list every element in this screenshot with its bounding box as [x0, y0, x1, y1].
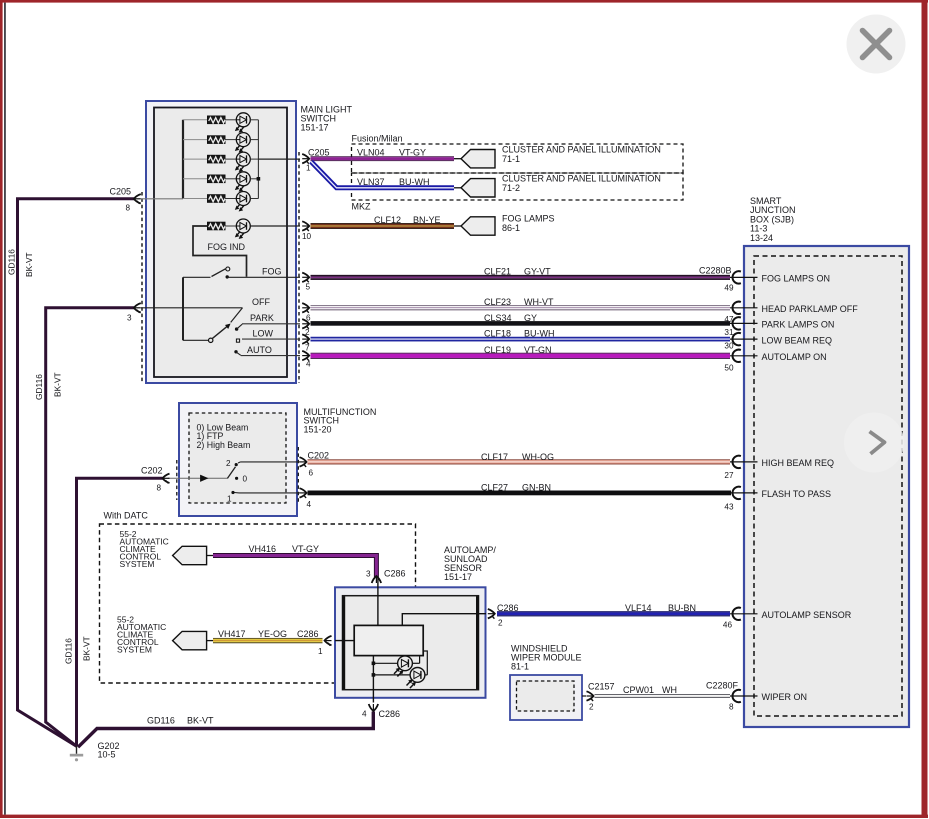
svg-text:VT-GN: VT-GN: [524, 345, 552, 355]
svg-text:GD116: GD116: [7, 249, 17, 275]
label VH417: [218, 629, 246, 639]
label pin 3: [127, 314, 132, 323]
svg-text:CLF23: CLF23: [484, 297, 511, 307]
junction dot row 4: [257, 177, 261, 181]
wire VH417 YE-OG: [213, 638, 323, 643]
label BU-WH (CLF18): [524, 328, 555, 338]
svg-text:C202: C202: [141, 466, 163, 476]
label BN-YE (CLF12): [413, 215, 441, 225]
connector C2280 pin 47 hook: [733, 302, 741, 314]
svg-text:71-1: 71-1: [502, 154, 520, 164]
svg-text:FLASH TO PASS: FLASH TO PASS: [762, 489, 832, 499]
illumination resistor 2: [208, 136, 226, 144]
label C286 (pin 1): [297, 629, 319, 639]
label WH-OG (CLF17): [522, 452, 554, 462]
wire OFF / C205 pin 3-6: [141, 307, 243, 309]
label CLS34: [484, 313, 512, 323]
label C2157: [588, 681, 615, 691]
label BK-VT (left wire 2): [53, 372, 63, 397]
label pin 1 (C286): [318, 647, 323, 656]
svg-text:3: 3: [127, 314, 132, 323]
SJB pin 30 lead: [730, 338, 758, 340]
wire fog LED to C205 pin 10: [250, 225, 300, 227]
label pin 8: [126, 204, 131, 213]
wire VH416 VT-GY: [213, 556, 376, 578]
SJB pin 50 lead: [730, 355, 758, 357]
svg-text:FOG LAMPS ON: FOG LAMPS ON: [762, 274, 831, 284]
connector C2280 pin 49 hook: [733, 271, 741, 283]
label C205 (pin 8): [110, 187, 132, 197]
label Fusion/Milan: [352, 134, 403, 144]
label pin 5 (C205 pin 5): [306, 283, 311, 292]
frame border left: [0, 0, 3, 818]
wire resistor 3 to LED 3: [225, 158, 236, 160]
wire fog indicator feed: [193, 226, 247, 277]
svg-text:C2280B: C2280B: [699, 265, 732, 275]
label pin 7 (C205 pin 7): [305, 344, 310, 353]
connector C286 pin 4 arrow: [369, 704, 378, 711]
wire bus to C205 pin 1: [258, 158, 300, 160]
svg-text:GD116: GD116: [64, 638, 74, 664]
wire fog switch to C205 pin 5: [227, 276, 300, 278]
svg-text:2: 2: [498, 619, 503, 628]
svg-text:151-17: 151-17: [444, 572, 472, 582]
connector C205 pin 2 arrow: [302, 319, 309, 329]
label BK-VT (left wire 1): [24, 252, 34, 277]
label pin 2 (C286): [498, 619, 503, 628]
svg-text:BU-WH: BU-WH: [399, 177, 430, 187]
svg-text:2: 2: [226, 459, 231, 468]
wire stub to resistor 2: [183, 139, 208, 141]
label pin 49 (SJB): [724, 284, 734, 293]
svg-text:151-20: 151-20: [304, 424, 332, 434]
label OFF: [252, 297, 270, 307]
svg-text:30: 30: [724, 342, 734, 351]
label CLUSTER AND PANEL ILLUMINATION 71-1: [502, 145, 661, 165]
label VLN04: [357, 147, 385, 157]
AUTO contact dot: [234, 350, 237, 353]
autolamp sunload sensor inner box: [343, 596, 479, 690]
svg-text:MKZ: MKZ: [352, 202, 372, 212]
wire GD116 BK-VT from C202 pin 8 to G202: [77, 478, 163, 746]
svg-text:1: 1: [318, 647, 323, 656]
svg-text:AUTO: AUTO: [247, 345, 272, 355]
svg-text:1: 1: [306, 164, 311, 173]
wire CLF17 WH-OG: [308, 459, 731, 464]
connector C2157 pin 2 arrow: [587, 691, 594, 701]
label pin 2 (C205 pin 2): [305, 328, 310, 337]
connector C205 pin 5 arrow: [302, 273, 309, 283]
SJB pin 47 lead: [730, 307, 758, 309]
svg-text:BN-YE: BN-YE: [413, 215, 441, 225]
label CLF23: [484, 297, 511, 307]
wire module to C286 pin 4: [372, 656, 374, 703]
wire CLF27 GN-BN: [308, 491, 732, 496]
svg-text:HIGH BEAM REQ: HIGH BEAM REQ: [762, 458, 835, 468]
svg-text:BK-VT: BK-VT: [82, 636, 92, 661]
connector automatic climate control system (lower): [173, 631, 207, 649]
wire resistor 4 to LED 4: [225, 178, 236, 180]
svg-text:CLF18: CLF18: [484, 328, 511, 338]
label CLF18: [484, 328, 511, 338]
label VT-GN (CLF19): [524, 345, 552, 355]
label C286 (pin 3): [384, 569, 406, 579]
svg-text:PARK LAMPS ON: PARK LAMPS ON: [762, 320, 835, 330]
connector C2280 pin 27 hook: [733, 456, 741, 468]
label pin 4 (C205 pin 4): [306, 360, 311, 369]
label BK-VT (left wire 3): [82, 636, 92, 661]
svg-text:CLUSTER AND PANEL ILLUMINATION: CLUSTER AND PANEL ILLUMINATION: [502, 145, 661, 155]
label C2280B: [699, 265, 732, 275]
illumination LED 5: [236, 192, 251, 211]
svg-text:10-5: 10-5: [98, 750, 116, 760]
label BU-WH (VLN37): [399, 177, 430, 187]
svg-text:1: 1: [227, 495, 232, 504]
svg-text:7: 7: [305, 344, 310, 353]
wire PARK diagonal: [237, 324, 242, 329]
svg-text:CLF19: CLF19: [484, 345, 511, 355]
label FOG IND: [208, 242, 246, 252]
wire CLF23 WH-VT: [311, 305, 731, 310]
label VLF14: [625, 603, 652, 613]
svg-text:2) High Beam: 2) High Beam: [197, 440, 251, 450]
autolamp sunload sensor outer box: [335, 587, 486, 698]
wire fog switch common: [183, 276, 211, 278]
svg-text:GY: GY: [524, 313, 537, 323]
svg-text:C205: C205: [110, 187, 132, 197]
connector fog lamps 86-1: [454, 217, 495, 235]
svg-text:50: 50: [724, 364, 734, 373]
connector cluster illumination 71-2: [454, 179, 495, 197]
wire C202 pin 8 into switch: [168, 477, 228, 479]
svg-text:FOG: FOG: [262, 267, 282, 277]
label GN-BN (CLF27): [522, 482, 551, 492]
illumination resistor 5: [208, 195, 226, 203]
label CLF27: [481, 482, 508, 492]
label VT-GY (VLN04): [399, 147, 426, 157]
label CLF21: [484, 266, 511, 276]
next page chevron button: [844, 413, 904, 473]
wire GD116 BK-VT from C205 pin 8 to G202: [18, 199, 135, 746]
svg-text:71-2: 71-2: [502, 183, 520, 193]
connector C205 pin 6 arrow: [302, 303, 309, 313]
label C202 (pin 8): [141, 466, 163, 476]
label GD116 (left wire 2): [34, 374, 44, 400]
svg-text:SYSTEM: SYSTEM: [120, 559, 155, 569]
svg-text:WH: WH: [662, 685, 677, 695]
svg-text:2: 2: [589, 703, 594, 712]
illumination bus wire: [182, 120, 184, 199]
svg-text:VT-GY: VT-GY: [399, 147, 426, 157]
label pin 4 (C202): [307, 500, 312, 509]
illumination resistor 1: [208, 116, 226, 124]
sensor inner thick right border: [476, 596, 479, 689]
label C205 (pin 1): [308, 148, 330, 158]
dashed box Fusion/Milan: [352, 144, 684, 173]
svg-text:AUTOLAMP ON: AUTOLAMP ON: [762, 352, 827, 362]
wire CLF12 BN-YE: [311, 223, 455, 229]
photodiode 2: [407, 668, 425, 689]
connector C2280 pin 8 hook: [733, 690, 741, 702]
label AUTOMATIC CLIMATE CONTROL SYSTEM 55-2 (upper): [120, 529, 169, 569]
label 10-5: [98, 750, 116, 760]
wire VLN04 VT-GY: [311, 156, 455, 161]
connector C2280 pin 46 hook: [733, 608, 741, 620]
wire CLS34 GY: [311, 321, 731, 326]
svg-text:OFF: OFF: [252, 297, 270, 307]
wire CLF18 BU-WH: [311, 337, 731, 342]
label MULTIFUNCTION SWITCH 151-20: [304, 407, 377, 435]
wire stub to resistor 5: [183, 198, 208, 200]
connector C202 pin 4 arrow: [300, 488, 307, 498]
sensor inner thick left border: [342, 596, 345, 689]
svg-text:CLS34: CLS34: [484, 313, 512, 323]
label FOG LAMPS 86-1: [502, 214, 555, 233]
wire LED 2 to bus: [250, 139, 258, 141]
svg-text:CPW01: CPW01: [623, 685, 654, 695]
connector C205 pin 3 arrow: [134, 303, 141, 313]
svg-text:VLN37: VLN37: [357, 177, 385, 187]
label FLASH TO PASS: [762, 489, 832, 499]
svg-text:8: 8: [729, 702, 734, 711]
connector C205 pin 10 arrow: [302, 221, 309, 231]
svg-text:6: 6: [309, 469, 314, 478]
label 1) FTP: [197, 431, 224, 441]
label C202 (pin 6): [308, 451, 330, 461]
connector C205 pin 4 arrow: [302, 351, 309, 361]
dashed box With DATC: [100, 524, 416, 683]
svg-text:CLF27: CLF27: [481, 482, 508, 492]
windshield wiper module inner dashed box: [517, 681, 575, 711]
label pin 10 (C205 pin 10): [302, 232, 312, 241]
wire CPW01 WH: [595, 694, 731, 698]
SJB pin 27 lead: [730, 461, 758, 463]
multifunction switch inner dashed box: [189, 413, 286, 503]
svg-text:BK-VT: BK-VT: [24, 252, 34, 277]
svg-text:81-1: 81-1: [511, 662, 529, 672]
label CLUSTER AND PANEL ILLUMINATION 71-2: [502, 174, 661, 194]
label 2) High Beam: [197, 440, 251, 450]
connector C202 pin 6 arrow: [300, 457, 307, 467]
multifunction switch blade: [228, 467, 236, 479]
svg-text:YE-OG: YE-OG: [258, 629, 287, 639]
contact 1 dot: [231, 491, 234, 494]
label CPW01: [623, 685, 654, 695]
wire stub to resistor 3: [183, 158, 208, 160]
wire to photodiode 2: [373, 674, 410, 676]
label C286 (pin 4): [379, 709, 401, 719]
connector C286 pin 1 arrow: [325, 636, 332, 646]
svg-text:BU-BN: BU-BN: [668, 603, 696, 613]
label MKZ: [352, 202, 372, 212]
direction arrow on C202 pin 8 wire: [201, 475, 208, 481]
SJB pin 43 lead: [730, 492, 758, 494]
label BU-BN (VLF14): [668, 603, 696, 613]
SJB pin 49 lead: [730, 276, 758, 278]
LED output bus wire: [257, 120, 259, 199]
connector automatic climate control system (upper): [173, 546, 207, 564]
connector C205 pin 7 arrow: [302, 334, 309, 344]
label BK-VT (bottom wire): [187, 716, 214, 726]
svg-text:49: 49: [724, 284, 734, 293]
svg-text:4: 4: [306, 360, 311, 369]
connector C2280 pin 43 hook: [733, 487, 741, 499]
wire AUTO diagonal: [236, 352, 241, 355]
svg-text:BK-VT: BK-VT: [187, 716, 214, 726]
svg-text:Fusion/Milan: Fusion/Milan: [352, 134, 403, 144]
svg-text:GD116: GD116: [34, 374, 44, 400]
wire fog resistor to LED: [225, 225, 236, 227]
label FOG LAMPS ON: [762, 274, 831, 284]
svg-text:VH417: VH417: [218, 629, 246, 639]
label YE-OG (VH417): [258, 629, 287, 639]
label MAIN LIGHT SWITCH 151-17: [301, 105, 353, 133]
wire LED 5 to bus: [250, 198, 258, 200]
svg-text:4: 4: [362, 710, 367, 719]
svg-text:46: 46: [723, 620, 733, 629]
label 0 (contact): [243, 475, 248, 484]
label GY (CLS34): [524, 313, 537, 323]
label pin 2 (C2157): [589, 703, 594, 712]
wire resistor 2 to LED 2: [225, 139, 236, 141]
frame border right: [922, 0, 928, 818]
label pin 31 (SJB): [724, 328, 734, 337]
sensor control module box: [354, 625, 423, 655]
wire to photodiode 1: [373, 662, 397, 664]
wire wiper module to C2157: [582, 695, 586, 697]
wire GD116 BK-VT from C205 pin 3 to G202: [46, 308, 134, 746]
label WIPER ON: [762, 692, 808, 702]
svg-text:C202: C202: [308, 451, 330, 461]
svg-text:86-1: 86-1: [502, 223, 520, 233]
illumination LED 1: [236, 113, 251, 132]
wire CLF21 GY-VT: [311, 275, 731, 280]
svg-text:8: 8: [157, 484, 162, 493]
label pin 50 (SJB): [724, 364, 734, 373]
illumination resistor 3: [208, 155, 226, 163]
SJB pin 46 lead: [730, 613, 758, 615]
connector C205 dashed line (left of switch): [141, 192, 143, 383]
wire GD116 BK-VT from C286 pin 4 to G202: [78, 712, 373, 748]
switch bus vertical wire: [182, 277, 184, 340]
connector C2280 pin 30 hook: [733, 333, 741, 345]
label GD116 (bottom wire): [147, 716, 175, 726]
label WH-VT (CLF23): [524, 297, 554, 307]
svg-text:FOG IND: FOG IND: [208, 242, 246, 252]
svg-text:BK-VT: BK-VT: [53, 372, 63, 397]
close button: [847, 15, 906, 74]
wire LED 3 to bus: [250, 158, 258, 160]
wire stub to resistor 4: [183, 178, 208, 180]
svg-text:C205: C205: [308, 148, 330, 158]
wire C286 pin 1 into module: [335, 640, 354, 642]
wire LOW to C205 pin 7: [242, 338, 300, 340]
svg-text:151-17: 151-17: [301, 123, 329, 133]
svg-text:3: 3: [366, 570, 371, 579]
label LOW BEAM REQ: [762, 335, 833, 345]
svg-text:CLUSTER AND PANEL ILLUMINATION: CLUSTER AND PANEL ILLUMINATION: [502, 174, 661, 184]
wire AUTO to C205 pin 4: [241, 355, 300, 357]
ground G202: [70, 746, 83, 761]
label pin 4 (C286): [362, 710, 367, 719]
svg-text:C286: C286: [297, 629, 319, 639]
wire rotary switch feed: [183, 339, 209, 341]
label AUTO: [247, 345, 272, 355]
label WH (CPW01): [662, 685, 677, 695]
label GD116 (left wire 3): [64, 638, 74, 664]
wire contact 1 to C202 pin 4: [235, 492, 301, 494]
dashed box MKZ: [352, 173, 684, 200]
svg-text:GY-VT: GY-VT: [524, 266, 551, 276]
wire PARK to C205 pin 2: [242, 323, 300, 325]
SJB pin 8 lead: [730, 695, 758, 697]
svg-text:GD116: GD116: [147, 716, 175, 726]
svg-text:C2157: C2157: [588, 681, 615, 691]
svg-text:LOW: LOW: [253, 328, 274, 338]
label C286 (pin 2): [497, 603, 519, 613]
label 2 (contact): [226, 459, 231, 468]
LOW contact dot: [236, 339, 239, 342]
fog indicator resistor: [208, 222, 226, 230]
label G202: [98, 741, 120, 751]
PARK contact dot: [235, 327, 238, 330]
label AUTOLAMP/ SUNLOAD SENSOR 151-17: [444, 545, 496, 582]
svg-text:VT-GY: VT-GY: [292, 544, 319, 554]
svg-text:C2280F: C2280F: [706, 681, 739, 691]
wire OFF contact diagonal: [231, 308, 243, 323]
label pin 1 (C205 pin 1): [306, 164, 311, 173]
junction dot photodiode 2: [372, 673, 376, 677]
connector C205 pin 1 arrow: [302, 154, 309, 164]
wire VLN37 BU-WH: [311, 162, 454, 188]
connector C202 pin 8 arrow: [163, 474, 170, 484]
label pin 46: [723, 620, 733, 629]
frame border bottom: [0, 815, 928, 818]
main light switch outer box: [146, 101, 296, 383]
label CLF19: [484, 345, 511, 355]
svg-text:8: 8: [126, 204, 131, 213]
illumination LED 2: [236, 133, 251, 152]
fog switch contact dots: [226, 267, 230, 279]
wire stub to VH417: [207, 640, 213, 642]
svg-text:43: 43: [724, 502, 734, 511]
connector C286 pin 3 arrow: [372, 576, 381, 583]
svg-text:With DATC: With DATC: [104, 511, 149, 521]
contact 2 dot: [235, 463, 238, 466]
label VT-GY (VH416): [292, 544, 319, 554]
diagram edge line left: [4, 3, 6, 815]
svg-text:PARK: PARK: [250, 313, 274, 323]
wire module output to C286 pin 2: [402, 614, 486, 626]
label pin 27 (SJB): [724, 471, 734, 480]
junction dot photodiode 1: [372, 662, 376, 666]
wire photodiode 1 return: [412, 656, 419, 663]
wire resistor 1 to LED 1: [225, 119, 236, 121]
svg-text:HEAD PARKLAMP OFF: HEAD PARKLAMP OFF: [762, 304, 859, 314]
label pin 8 (C202): [157, 484, 162, 493]
label GD116 (left wire 1): [7, 249, 17, 275]
label CLF17: [481, 452, 508, 462]
connector cluster illumination 71-1: [454, 150, 495, 168]
svg-text:C286: C286: [379, 709, 401, 719]
label pin 47 (SJB): [724, 315, 734, 324]
label VH416: [249, 544, 277, 554]
svg-text:VH416: VH416: [249, 544, 277, 554]
svg-text:5: 5: [306, 283, 311, 292]
label HIGH BEAM REQ: [762, 458, 835, 468]
svg-text:4: 4: [307, 500, 312, 509]
label HEAD PARKLAMP OFF: [762, 304, 859, 314]
